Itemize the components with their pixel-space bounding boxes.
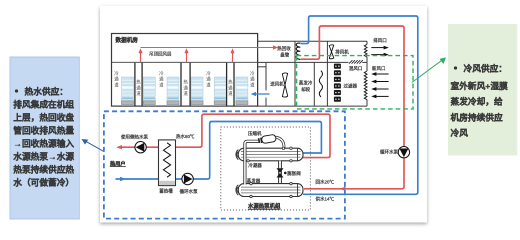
hot aisle 1 label bbox=[136, 79, 141, 98]
return air riser arrow 3 bbox=[232, 52, 234, 62]
coil section wall bbox=[294, 41, 296, 106]
blue dashed enclosure (heat recovery water loop) bbox=[104, 111, 345, 218]
svg-text:循环水泵: 循环水泵 bbox=[380, 149, 398, 156]
exhaust fan bbox=[329, 45, 334, 59]
AHU row divider bbox=[258, 61, 349, 63]
evaporator bbox=[236, 182, 303, 197]
compressor body bbox=[258, 134, 277, 144]
compressor suction pipe (crosses over condenser) bbox=[245, 141, 259, 184]
svg-text:膨胀阀: 膨胀阀 bbox=[287, 170, 301, 177]
svg-text:蓄热槽: 蓄热槽 bbox=[159, 187, 173, 194]
svg-text:水（可做蓄冷）: 水（可做蓄冷） bbox=[13, 177, 74, 188]
svg-text:过滤器: 过滤器 bbox=[344, 82, 358, 89]
compressor discharge pipe bbox=[276, 137, 285, 148]
exhaust arrows bbox=[371, 48, 384, 55]
svg-text:回水20℃: 回水20℃ bbox=[316, 178, 335, 185]
svg-text:机房持续供应: 机房持续供应 bbox=[451, 111, 503, 122]
svg-text:冷凝器: 冷凝器 bbox=[248, 162, 262, 169]
svg-text:排风机: 排风机 bbox=[335, 48, 349, 55]
svg-text:热水60℃: 热水60℃ bbox=[176, 133, 195, 140]
left annotation box: hot water supply note bbox=[10, 57, 79, 219]
cold aisle 4 label bbox=[250, 70, 255, 89]
hot aisle 1 walls bbox=[134, 63, 136, 106]
return duct stub between room plenum and AHU bbox=[258, 66, 266, 68]
rack 3 bbox=[167, 77, 179, 105]
svg-text:送风机: 送风机 bbox=[270, 81, 284, 88]
callout arrow to left box bbox=[86, 141, 105, 151]
svg-text:热泵持续供应热: 热泵持续供应热 bbox=[13, 164, 74, 175]
rack 2 bbox=[143, 77, 155, 105]
chilled supply water pipe (evaporator to coil, 14C) bbox=[301, 16, 418, 194]
svg-text:冷风: 冷风 bbox=[451, 127, 469, 138]
svg-text:热用户: 热用户 bbox=[110, 159, 126, 167]
svg-text:道: 道 bbox=[183, 90, 188, 97]
cold aisle 2 label bbox=[159, 70, 164, 89]
callout arrow to right box bbox=[412, 60, 443, 83]
svg-text:却段: 却段 bbox=[301, 86, 310, 93]
svg-text:蒸发冷: 蒸发冷 bbox=[299, 80, 313, 87]
svg-text:排风口: 排风口 bbox=[373, 37, 387, 44]
svg-text:道: 道 bbox=[136, 90, 141, 97]
warm return water pipe (coil to evaporator, 20C) bbox=[301, 26, 404, 189]
svg-text:热回收: 热回收 bbox=[277, 45, 291, 52]
svg-text:冷风供应：: 冷风供应： bbox=[464, 62, 507, 73]
supply fan section left wall bbox=[265, 62, 267, 90]
svg-text:热水供应：: 热水供应： bbox=[25, 86, 68, 97]
svg-text:压缩机: 压缩机 bbox=[248, 130, 262, 137]
svg-text:道: 道 bbox=[206, 81, 211, 88]
expansion valve pipe bbox=[278, 161, 282, 184]
svg-text:→回收热源输入: →回收热源输入 bbox=[13, 138, 74, 149]
storage tank bbox=[159, 140, 176, 186]
cold aisle 3 label bbox=[206, 70, 211, 89]
ceiling line under return-air plenum bbox=[112, 61, 258, 63]
svg-text:道: 道 bbox=[159, 81, 164, 88]
svg-text:道: 道 bbox=[114, 81, 119, 88]
ceiling return-air layer red line bbox=[141, 47, 275, 49]
rack 6 bbox=[236, 77, 248, 105]
svg-text:水源热泵机组: 水源热泵机组 bbox=[248, 202, 281, 210]
svg-text:盘管: 盘管 bbox=[280, 52, 289, 59]
svg-text:数据机房: 数据机房 bbox=[116, 36, 139, 44]
hot aisle 2 label bbox=[183, 79, 188, 98]
svg-text:供水14℃: 供水14℃ bbox=[316, 196, 335, 203]
wet membrane wavy line bbox=[319, 71, 322, 97]
return air riser arrow 2 bbox=[186, 52, 188, 62]
flow arrow on hot water return bbox=[120, 177, 126, 181]
green dashed enclosure (fresh air cooling unit) bbox=[297, 56, 413, 109]
filter section wall bbox=[326, 41, 328, 106]
condenser bbox=[236, 147, 303, 162]
filter block column bbox=[334, 64, 341, 102]
flow arrow on evaporator return bbox=[340, 187, 346, 191]
tank circulation pump bbox=[182, 173, 193, 184]
svg-text:循环水泵: 循环水泵 bbox=[180, 188, 198, 195]
svg-text:新风口: 新风口 bbox=[372, 65, 386, 72]
rack 5 bbox=[214, 77, 226, 105]
page background panel bbox=[100, 6, 427, 223]
cold aisle 1 label bbox=[114, 70, 119, 89]
mixing port hatch bbox=[349, 60, 363, 63]
hot aisle 2 walls bbox=[180, 63, 182, 106]
svg-text:使用侧热水泵: 使用侧热水泵 bbox=[121, 133, 148, 140]
svg-text:蒸发冷却，给: 蒸发冷却，给 bbox=[451, 96, 503, 107]
user-side hot water pump bbox=[135, 142, 146, 153]
svg-text:上层，热回收盘: 上层，热回收盘 bbox=[13, 112, 74, 123]
svg-text:排风集成在机组: 排风集成在机组 bbox=[13, 99, 74, 110]
rack 4 bbox=[191, 77, 203, 105]
rack 1 bbox=[122, 77, 134, 105]
right wall segments bbox=[366, 41, 368, 44]
aisle labels bbox=[114, 70, 255, 97]
hot aisle 3 label bbox=[228, 79, 233, 98]
supply fan bbox=[282, 73, 287, 97]
svg-text:混风口: 混风口 bbox=[349, 65, 363, 72]
expansion valve bbox=[277, 168, 287, 177]
water source heat pump dotted enclosure bbox=[221, 127, 311, 210]
hot water supply pipe (condenser to heat user, 60C) bbox=[120, 114, 331, 157]
svg-text:室外新风+湿膜: 室外新风+湿膜 bbox=[451, 80, 509, 91]
svg-text:管回收排风热量: 管回收排风热量 bbox=[13, 125, 74, 136]
AHU outer walls bbox=[258, 34, 367, 107]
svg-text:水源热泵→水源: 水源热泵→水源 bbox=[13, 151, 74, 162]
hot aisle 3 walls bbox=[226, 63, 228, 106]
svg-text:道: 道 bbox=[250, 81, 255, 88]
evaporative section wall bbox=[313, 62, 315, 106]
data room box bbox=[112, 34, 258, 107]
right circulation pump bbox=[398, 147, 409, 158]
return air riser arrow 1 bbox=[140, 52, 142, 62]
exhaust outlet grille zigzag bbox=[364, 44, 367, 57]
hot water return pipe (heat user to condenser) bbox=[116, 122, 322, 180]
svg-text:道: 道 bbox=[228, 90, 233, 97]
hot water supply arrowhead bbox=[116, 145, 122, 149]
fresh air inlet grille zigzag bbox=[364, 71, 367, 100]
fresh air arrows bbox=[375, 74, 388, 96]
heat recovery coil bbox=[296, 43, 300, 60]
supply air arrow into data room bbox=[255, 93, 270, 95]
right annotation box: cold air supply note bbox=[448, 24, 517, 156]
